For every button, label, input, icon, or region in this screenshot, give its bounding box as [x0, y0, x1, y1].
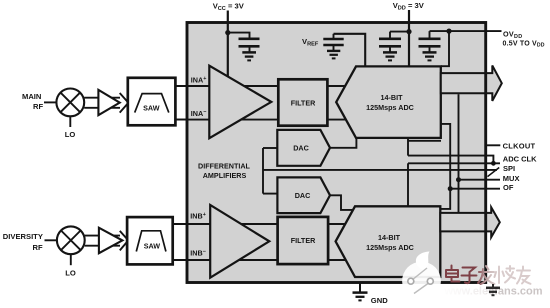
svg-text:SAW: SAW [144, 242, 161, 251]
svg-text:LO: LO [65, 269, 76, 278]
svg-text:MAIN: MAIN [22, 92, 41, 101]
svg-text:LO: LO [65, 130, 76, 139]
svg-text:RF: RF [33, 102, 43, 111]
svg-text:FILTER: FILTER [291, 99, 316, 108]
svg-text:DIFFERENTIAL: DIFFERENTIAL [198, 161, 251, 170]
svg-text:CLKOUT: CLKOUT [503, 141, 536, 150]
svg-text:GND: GND [371, 296, 388, 305]
svg-text:SPI: SPI [503, 164, 515, 173]
svg-text:DAC: DAC [293, 143, 309, 152]
svg-text:DIVERSITY: DIVERSITY [3, 232, 43, 241]
svg-text:VCC = 3V: VCC = 3V [213, 1, 245, 12]
svg-text:VDD = 3V: VDD = 3V [393, 1, 425, 12]
svg-text:14-BIT: 14-BIT [378, 233, 401, 242]
svg-text:AMPLIFIERS: AMPLIFIERS [203, 171, 247, 180]
svg-text:MUX: MUX [503, 174, 520, 183]
svg-text:125Msps ADC: 125Msps ADC [366, 103, 414, 112]
svg-text:RF: RF [33, 243, 43, 252]
svg-text:ADC CLK: ADC CLK [503, 154, 537, 163]
svg-text:14-BIT: 14-BIT [381, 93, 404, 102]
svg-text:FILTER: FILTER [291, 236, 316, 245]
svg-text:OF: OF [503, 183, 514, 192]
svg-text:SAW: SAW [143, 104, 160, 113]
svg-text:125Msps ADC: 125Msps ADC [366, 243, 414, 252]
svg-text:DAC: DAC [295, 191, 311, 200]
